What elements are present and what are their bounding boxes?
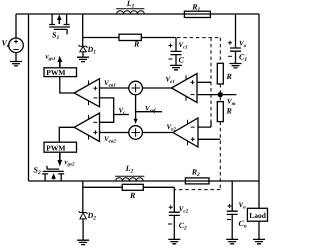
svg-text:vgs2: vgs2 <box>64 158 75 168</box>
svg-text:PWM: PWM <box>46 68 65 77</box>
svg-text:Vref: Vref <box>145 104 157 114</box>
svg-text:C1: C1 <box>239 53 247 64</box>
svg-text:C: C <box>179 55 185 64</box>
svg-text:R: R <box>226 107 233 116</box>
svg-text:Vea2: Vea2 <box>104 135 116 145</box>
svg-text:R2: R2 <box>191 167 200 178</box>
svg-text:R1: R1 <box>191 3 200 14</box>
svg-text:Ve1: Ve1 <box>166 76 175 86</box>
svg-text:Vc2: Vc2 <box>179 205 189 215</box>
svg-text:R: R <box>129 191 136 200</box>
svg-text:Vo: Vo <box>239 201 247 211</box>
svg-text:R: R <box>226 72 233 81</box>
svg-text:vgs1: vgs1 <box>46 53 56 63</box>
svg-text:PWM: PWM <box>46 143 65 152</box>
svg-text:R: R <box>133 40 140 49</box>
svg-text:Co: Co <box>239 219 247 230</box>
svg-text:D2: D2 <box>87 211 97 222</box>
svg-text:Ve2: Ve2 <box>167 123 177 133</box>
svg-text:Vea1: Vea1 <box>104 79 116 89</box>
svg-text:Vc1: Vc1 <box>179 41 188 51</box>
svg-text:S2: S2 <box>34 166 41 177</box>
svg-text:Laod: Laod <box>249 211 267 220</box>
svg-text:Vd: Vd <box>2 39 10 50</box>
svg-text:L2: L2 <box>125 164 134 175</box>
svg-text:L1: L1 <box>126 0 135 10</box>
svg-text:C2: C2 <box>179 221 187 232</box>
svg-text:D1: D1 <box>87 45 97 56</box>
svg-text:S1: S1 <box>52 31 59 42</box>
